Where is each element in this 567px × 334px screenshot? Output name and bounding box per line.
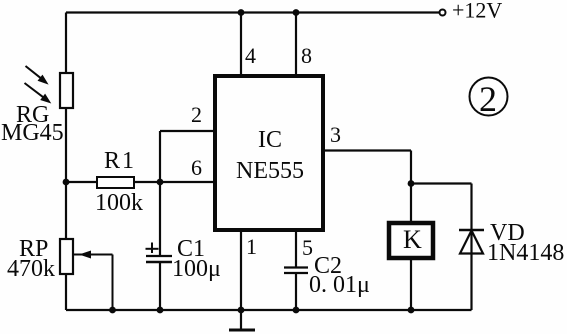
- wire C2 bottom lead: [295, 273, 297, 310]
- wire pin5 to C2: [295, 230, 297, 267]
- node top rail / pin8: [293, 9, 300, 16]
- wire pin2: [160, 130, 215, 132]
- relay K box: [389, 223, 433, 258]
- svg-text:R1: R1: [104, 148, 136, 174]
- svg-text:6: 6: [191, 155, 202, 180]
- diode VD cathode bar: [459, 229, 484, 231]
- svg-text:+12V: +12V: [452, 0, 502, 23]
- IC box U1: [215, 76, 323, 230]
- potentiometer RP body: [60, 239, 73, 274]
- wire left rail middle (RG bottom to RP top): [65, 107, 67, 239]
- wire pin2-pin6 connector: [159, 131, 161, 182]
- wire diode lead through symbol: [470, 184, 472, 311]
- svg-text:3: 3: [330, 122, 341, 147]
- node bottom rail / C1: [157, 307, 164, 314]
- svg-text:4: 4: [245, 43, 256, 68]
- wire left rail upper: [65, 13, 67, 74]
- node pin3 branch: [408, 180, 415, 187]
- wire bottom rail: [66, 309, 472, 311]
- svg-text:NE555: NE555: [236, 158, 304, 184]
- node bottom rail / relay K: [408, 307, 415, 314]
- terminal +12V open circle: [440, 10, 446, 16]
- capacitor C1 plates: [146, 255, 172, 257]
- svg-text:1: 1: [246, 234, 257, 259]
- svg-text:IC: IC: [258, 127, 282, 153]
- wire left rail lower (RP bottom to bottom rail): [65, 273, 67, 310]
- ground: [229, 329, 255, 332]
- svg-text:470k: 470k: [7, 256, 55, 282]
- node bottom rail / wiper: [109, 307, 116, 314]
- wire C1 top lead: [159, 182, 161, 255]
- node pin6 / C1: [157, 179, 164, 186]
- node top rail / pin4: [238, 9, 245, 16]
- svg-text:5: 5: [302, 235, 313, 260]
- node bottom rail / C2: [293, 307, 300, 314]
- svg-text:MG45: MG45: [1, 120, 64, 146]
- wire branch junction to diode: [411, 182, 472, 184]
- svg-text:1N4148: 1N4148: [487, 240, 564, 266]
- svg-text:0. 01μ: 0. 01μ: [309, 272, 370, 298]
- RG light arrow 1: [26, 66, 49, 85]
- capacitor C2 plates: [284, 266, 308, 268]
- diode VD triangle: [460, 231, 483, 254]
- photoresistor RG body: [60, 73, 73, 108]
- svg-text:2: 2: [479, 79, 497, 119]
- RP wiper arrow: [73, 251, 113, 311]
- node left rail / pin6: [63, 179, 70, 186]
- wire pin3 down to relay K: [410, 151, 412, 224]
- figure number circled 2: [470, 78, 508, 116]
- wire pin8 to top rail: [295, 13, 297, 77]
- resistor R1 body: [97, 177, 134, 188]
- capacitor C1 plus sign: [146, 243, 159, 254]
- node bottom rail / pin1 ground: [238, 307, 245, 314]
- RG light arrow 2: [25, 83, 52, 104]
- wire top rail +12V: [66, 11, 440, 13]
- wire pin3 horizontal: [323, 149, 411, 151]
- svg-text:100μ: 100μ: [172, 256, 221, 282]
- wire pin6: [66, 181, 215, 183]
- wire pin1 to bottom rail: [240, 230, 242, 310]
- svg-text:8: 8: [301, 43, 312, 68]
- wire relay K bottom lead: [410, 258, 412, 310]
- svg-text:100k: 100k: [95, 190, 143, 216]
- svg-text:K: K: [403, 225, 422, 254]
- svg-text:2: 2: [191, 102, 202, 127]
- wire ground stub: [240, 310, 242, 329]
- wire pin4 to top rail: [240, 13, 242, 77]
- wire C1 bottom lead: [159, 263, 161, 311]
